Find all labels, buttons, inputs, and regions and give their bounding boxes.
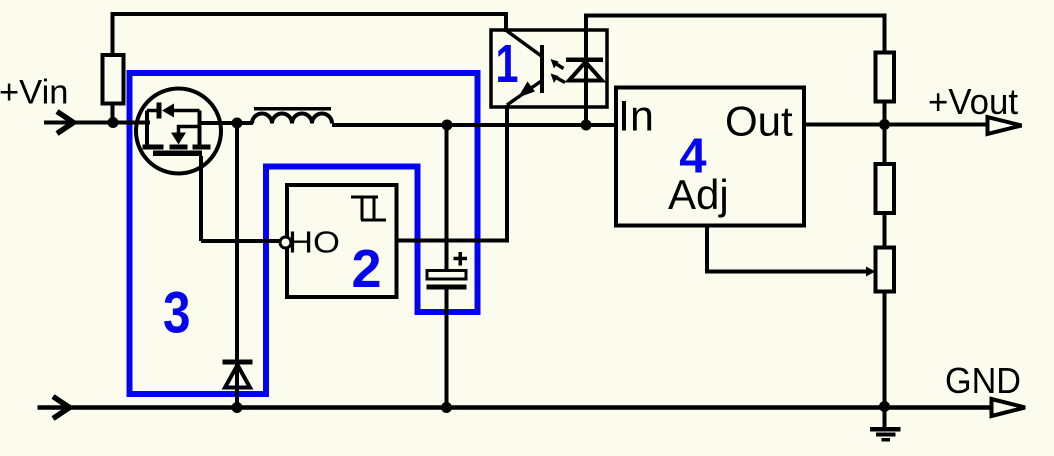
svg-text:3: 3 [163, 281, 191, 346]
svg-text:2: 2 [352, 239, 382, 299]
svg-text:HO: HO [288, 225, 340, 260]
svg-text:4: 4 [679, 130, 706, 184]
svg-text:GND: GND [945, 360, 1021, 401]
svg-text:Out: Out [725, 98, 793, 145]
svg-text:+Vout: +Vout [928, 81, 1018, 122]
svg-text:1: 1 [496, 34, 519, 94]
svg-text:+Vin: +Vin [0, 74, 69, 112]
svg-text:In: In [618, 93, 654, 141]
